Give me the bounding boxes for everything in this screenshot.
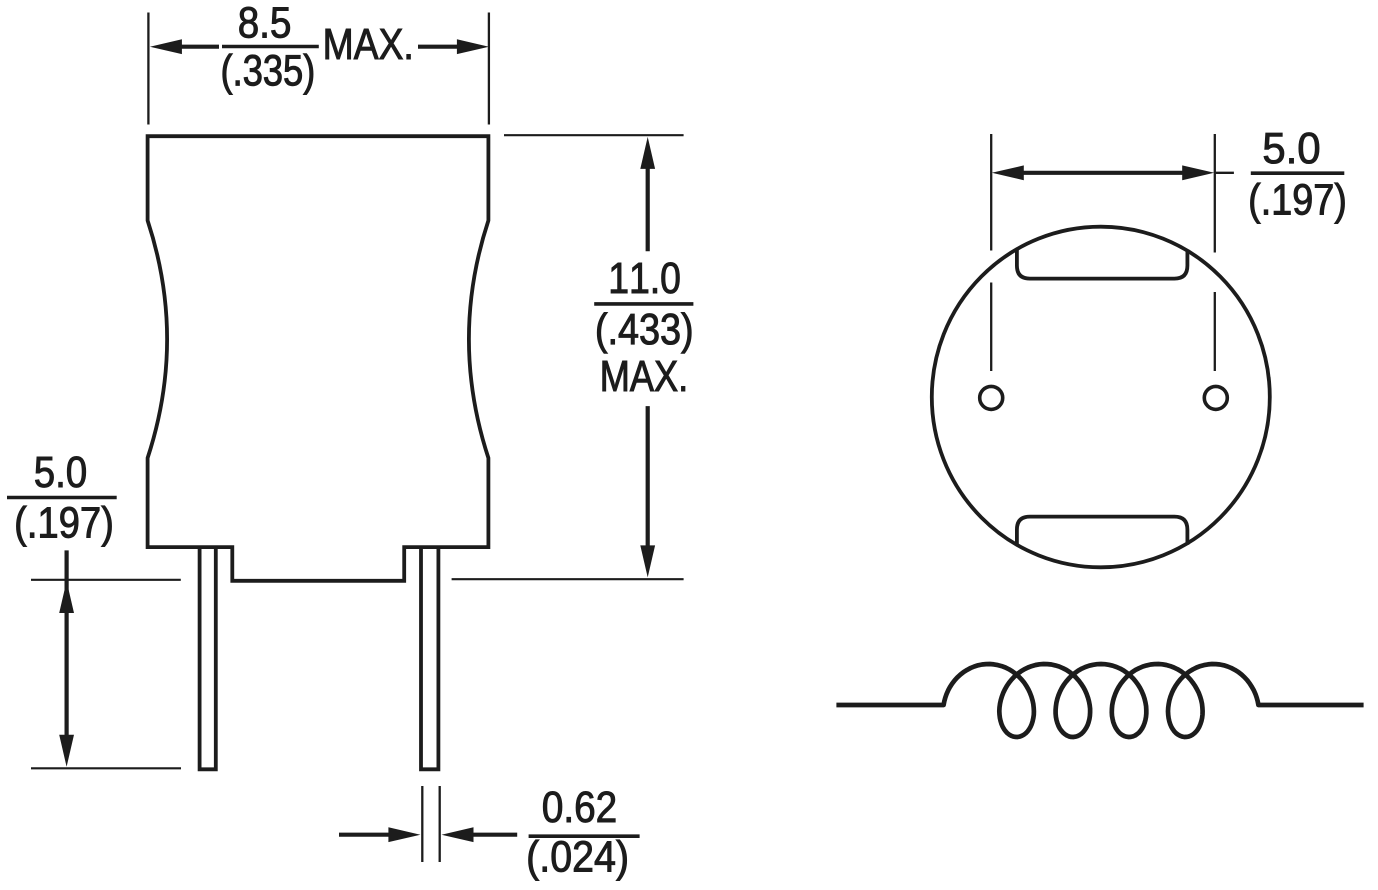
pin spacing leader stub xyxy=(1216,172,1234,174)
lead wire left xyxy=(200,546,216,770)
pin spacing label 5.0 mm xyxy=(1264,133,1319,164)
pin hole right xyxy=(1204,386,1227,409)
height dimension arrowhead down xyxy=(640,545,655,577)
width dimension label 8.5 mm xyxy=(240,7,290,38)
pin spacing arrowhead right xyxy=(1182,165,1214,180)
height dimension label 11.0 mm xyxy=(611,262,679,293)
lead length dimension label 5.0 mm xyxy=(35,456,85,487)
inductor schematic symbol coil xyxy=(836,664,1363,737)
pin spacing arrowhead left xyxy=(992,165,1024,180)
fraction bar 11.0/(.433) xyxy=(594,302,693,306)
width dimension extension line right xyxy=(488,13,490,125)
pin spacing extension line left upper xyxy=(990,134,992,251)
inductor body front view outline xyxy=(148,136,489,581)
width dimension line right segment xyxy=(418,45,458,49)
lead length dimension line xyxy=(64,550,68,740)
lead diameter arrowhead pointing left xyxy=(442,827,474,842)
pin hole left xyxy=(980,386,1003,409)
height dimension arrowhead up xyxy=(640,137,655,169)
height dimension extension line bottom xyxy=(452,578,684,580)
height dimension line upper segment xyxy=(646,165,650,251)
lead diameter label (.024) inch xyxy=(529,840,627,881)
fraction bar 5.0/(.197) right xyxy=(1251,171,1345,175)
top view winding slot lower xyxy=(1017,517,1188,545)
lead length arrowhead up xyxy=(59,581,74,613)
lead diameter dimension line left xyxy=(339,833,390,837)
lead diameter label 0.62 mm xyxy=(543,791,615,822)
width dimension line left segment xyxy=(180,45,219,49)
fraction bar 0.62/(.024) xyxy=(529,834,640,838)
fraction bar 8.5/(.335) xyxy=(222,45,319,49)
lead diameter extension line left xyxy=(421,786,423,862)
height dimension extension line top xyxy=(504,134,684,136)
lead diameter arrowhead pointing right xyxy=(388,827,420,842)
height dimension label MAX. xyxy=(603,361,685,391)
lead length extension line top seating plane xyxy=(31,579,181,581)
width dimension arrowhead right xyxy=(457,39,489,54)
fraction bar 5.0/(.197) left xyxy=(7,496,117,500)
height dimension line lower segment xyxy=(646,406,650,560)
pin spacing extension line right lower xyxy=(1214,292,1216,371)
top view body circle xyxy=(932,227,1270,568)
lead wire right xyxy=(421,546,438,770)
lead diameter dimension line right xyxy=(472,833,517,837)
width dimension extension line left xyxy=(147,13,149,125)
pin spacing extension line left lower xyxy=(990,283,992,372)
pin spacing label (.197) inch xyxy=(1251,183,1345,224)
top view winding slot upper xyxy=(1017,249,1188,278)
lead length extension line bottom lead tip xyxy=(31,767,181,769)
lead diameter extension line right xyxy=(439,786,441,862)
pin spacing dimension line xyxy=(1022,171,1184,175)
lead length dimension label (.197) inch xyxy=(17,506,112,547)
width dimension label MAX. xyxy=(326,29,411,59)
width dimension label (.335) inch xyxy=(223,54,313,95)
width dimension arrowhead left xyxy=(150,39,182,54)
lead length arrowhead down xyxy=(59,735,74,767)
height dimension label (.433) inch xyxy=(597,313,691,354)
pin spacing extension line right upper xyxy=(1214,134,1216,253)
